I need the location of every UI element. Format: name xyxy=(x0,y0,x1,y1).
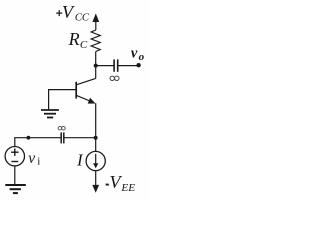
label infinity C1 xyxy=(58,126,65,130)
transistor Q1 base bar xyxy=(75,82,77,99)
current source I arrow xyxy=(95,154,97,165)
ground (vi source) xyxy=(5,185,26,193)
wire emitter node to current source xyxy=(95,138,97,152)
power VCC arrow xyxy=(92,13,99,22)
source vi plus xyxy=(11,149,19,156)
wire vi to ground xyxy=(14,166,16,185)
node input rail dot xyxy=(27,136,31,140)
svg-text:R: R xyxy=(68,29,80,49)
label +VCC xyxy=(62,2,90,24)
resistor RC xyxy=(91,30,100,52)
wire base to ground xyxy=(49,90,77,110)
svg-text:C: C xyxy=(80,39,88,51)
label -VEE minus sign xyxy=(106,183,109,185)
wire node to output capacitor xyxy=(96,65,114,67)
node collector junction xyxy=(94,64,98,68)
label -VEE xyxy=(105,172,135,194)
svg-text:o: o xyxy=(139,51,145,63)
svg-text:v: v xyxy=(131,46,138,62)
capacitor C1 (input, infinite) xyxy=(60,132,62,143)
transistor Q1 emitter arrow xyxy=(88,98,96,104)
label vo xyxy=(131,46,145,64)
capacitor C2 (output, infinite) xyxy=(113,59,115,71)
transistor Q1 emitter lead xyxy=(76,95,91,101)
wire current source to VEE arrow xyxy=(95,171,97,186)
source vi circle xyxy=(5,147,24,166)
wire capacitor to vo terminal xyxy=(118,65,138,67)
power -VEE arrow xyxy=(92,185,99,193)
label RC xyxy=(68,29,88,51)
label infinity C2 xyxy=(110,76,119,80)
ground (base) xyxy=(41,110,59,118)
node vo terminal xyxy=(136,63,140,67)
node emitter junction xyxy=(94,136,98,140)
wire input rail left xyxy=(15,137,61,139)
wire resistor to collector node xyxy=(95,52,97,79)
label +VCC plus sign xyxy=(56,10,62,16)
label I xyxy=(76,151,84,170)
label vi xyxy=(28,150,40,168)
wire capacitor to emitter node xyxy=(64,137,95,139)
wire emitter down xyxy=(95,103,97,138)
source vi minus xyxy=(11,161,18,163)
wire arrow to resistor xyxy=(95,21,97,30)
svg-text:i: i xyxy=(37,155,40,167)
svg-text:CC: CC xyxy=(75,12,90,24)
svg-text:v: v xyxy=(28,150,35,167)
transistor Q1 collector lead xyxy=(76,78,96,84)
current source I circle xyxy=(86,151,105,170)
wire rail to vi source xyxy=(14,137,16,147)
